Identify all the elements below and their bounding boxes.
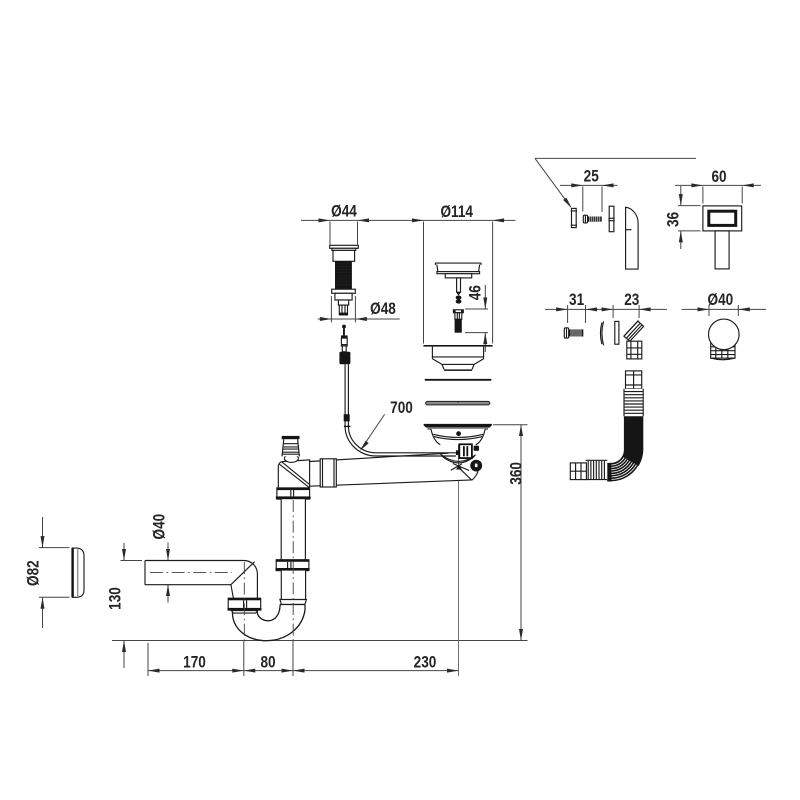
svg-text:230: 230 [414,653,437,672]
svg-text:23: 23 [624,291,639,310]
svg-text:Ø48: Ø48 [370,300,396,319]
svg-text:Ø82: Ø82 [24,560,43,586]
svg-text:130: 130 [106,587,125,610]
svg-text:80: 80 [260,653,275,672]
svg-text:25: 25 [584,167,600,186]
svg-text:360: 360 [507,462,526,485]
svg-text:60: 60 [711,167,726,186]
svg-text:Ø44: Ø44 [331,202,357,221]
svg-text:46: 46 [466,285,485,300]
svg-text:700: 700 [390,399,413,418]
svg-text:31: 31 [569,291,585,310]
svg-text:Ø40: Ø40 [708,290,734,309]
svg-text:36: 36 [664,212,683,227]
svg-text:Ø114: Ø114 [440,203,473,222]
svg-text:Ø40: Ø40 [150,514,169,540]
svg-text:170: 170 [183,653,206,672]
